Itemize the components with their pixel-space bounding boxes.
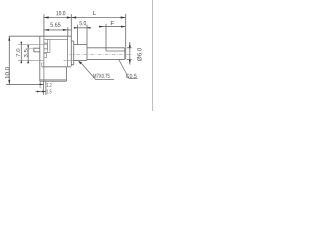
wire extension line bushing top left xyxy=(18,44,47,46)
pin left edge extended xyxy=(43,81,45,95)
body internal bottom seam xyxy=(40,79,67,81)
wire extension line body right top xyxy=(70,14,72,36)
arrow junction 10.0 right and L left xyxy=(67,16,72,18)
arrow 10.0 left xyxy=(44,16,49,18)
left dim A line xyxy=(27,45,29,63)
arrow bottom row2 left xyxy=(37,91,40,93)
wire extension line bushing bottom right xyxy=(64,59,74,61)
label 1.5 xyxy=(47,90,52,94)
body right edge xyxy=(70,36,72,66)
arrow dim B bottom xyxy=(20,60,22,63)
label F xyxy=(111,21,114,25)
arrow 5.0 left xyxy=(74,27,77,29)
arrow L right xyxy=(121,16,126,18)
page border right xyxy=(152,0,154,111)
label 5.0 xyxy=(80,21,87,25)
body hub column right xyxy=(49,39,51,52)
body hub step rectangle xyxy=(44,43,48,49)
left dim 10.0 line xyxy=(8,36,10,84)
arrow bottom row1 xyxy=(40,84,44,86)
collar flange face xyxy=(73,41,75,65)
diameter dim line xyxy=(129,42,131,65)
shaft bottom edge xyxy=(87,58,125,60)
leader line M7X0.75 xyxy=(81,62,114,79)
wire dimension line F xyxy=(99,26,126,28)
body top edge with extension to left dimension xyxy=(9,35,72,37)
wire extension line body left top xyxy=(43,14,45,36)
arrow dim 10.0 vertical bottom xyxy=(8,80,10,84)
collar bottom edge xyxy=(71,64,73,66)
wire dimension line 5.0 xyxy=(74,27,91,29)
label phi 6.0 rotated xyxy=(137,48,141,61)
arrow diameter bottom xyxy=(129,60,131,64)
arrow 5.65 right xyxy=(63,29,68,31)
shaft flat line xyxy=(106,50,125,52)
wire extension tab top to dim A xyxy=(26,47,34,49)
body bottom-right step horizontal xyxy=(66,66,71,68)
body bottom-right step vertical xyxy=(65,67,67,81)
body bottom edge xyxy=(40,80,67,82)
tab on left of body xyxy=(34,48,40,52)
shaft tip with chamfers xyxy=(125,48,126,60)
arrow dim A bottom xyxy=(27,60,29,63)
shaft top edge xyxy=(87,47,125,49)
wire extension line bushing bottom left xyxy=(18,59,44,61)
collar top edge xyxy=(71,40,73,42)
case edge extended below xyxy=(39,81,41,88)
label 10.0 rotated xyxy=(5,67,9,78)
diameter dim extension top xyxy=(127,47,132,49)
body outer case left edge xyxy=(39,36,41,81)
bushing right edge xyxy=(86,45,88,61)
arrow diameter top xyxy=(129,43,131,47)
bottom dim row2 line xyxy=(36,91,46,93)
label dim A rotated xyxy=(24,49,28,57)
body hub column bottom xyxy=(48,52,50,54)
seating plane dimension line xyxy=(6,83,43,85)
bushing top edge xyxy=(74,44,87,46)
arrow F right xyxy=(121,26,126,28)
body internal line left xyxy=(43,36,45,81)
wire extension line flat start xyxy=(105,24,107,51)
bushing bottom edge xyxy=(74,59,87,61)
wire extension line bushing end xyxy=(86,25,88,45)
arrow 5.0 right xyxy=(87,27,90,29)
wire extension line bushing thread start xyxy=(76,25,78,45)
centerline xyxy=(70,53,132,55)
label M7X0.75 xyxy=(93,74,109,78)
label L xyxy=(93,11,96,15)
arrow dim 10.0 vertical top xyxy=(8,36,10,40)
shaft chamfer inner line xyxy=(124,48,126,60)
label 10.0 top xyxy=(56,11,65,15)
body internal top seam xyxy=(44,38,68,40)
arrow F left xyxy=(99,26,104,28)
arrow dim B top xyxy=(20,42,22,45)
body lower step rectangle xyxy=(44,54,47,58)
arrowhead M7 leader xyxy=(78,61,82,65)
left dim B line xyxy=(20,42,22,64)
wire dimension line 5.65 xyxy=(44,29,71,31)
arrow 5.65 left xyxy=(44,29,49,31)
body internal shelf step xyxy=(42,63,44,67)
arrow dim A top xyxy=(27,45,29,48)
body internal lower shelf xyxy=(42,66,67,68)
body internal line right xyxy=(67,36,69,67)
label dim B rotated xyxy=(16,49,20,57)
pin right edge extended xyxy=(45,81,47,95)
arrow bottom row2 right xyxy=(42,91,46,93)
label C0.5 xyxy=(126,74,137,78)
leader line C0.5 xyxy=(119,60,138,78)
wire chained dimension line top (10.0 / L) xyxy=(44,17,126,19)
label 1.2 xyxy=(47,83,52,87)
label 5.65 xyxy=(50,23,60,27)
wire extension line 5.65 right xyxy=(67,27,69,36)
wire extension line shaft tip xyxy=(125,14,127,48)
diameter dim extension bottom xyxy=(127,58,132,60)
body hub tall column xyxy=(44,39,48,52)
